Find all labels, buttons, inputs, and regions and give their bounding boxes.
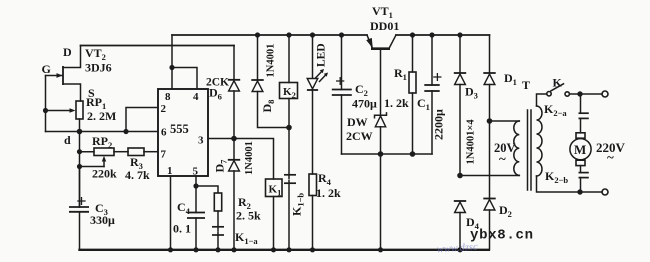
diode D3 (454, 35, 466, 176)
zener diode DW (2CW) (375, 113, 387, 154)
svg-text:2: 2 (161, 103, 167, 115)
node bottom right junction (577, 189, 582, 194)
svg-text:DW: DW (347, 115, 368, 129)
node C4 ground (193, 247, 198, 252)
svg-text:1N4001×4: 1N4001×4 (466, 119, 477, 165)
node C1 rail (429, 32, 434, 37)
svg-text:M: M (574, 142, 586, 157)
node switch junction (577, 91, 582, 96)
relay contact K1-b (284, 128, 296, 250)
wire primary bottom lead (537, 176, 603, 192)
relay coil K2 (280, 35, 298, 128)
wire gate column (45, 76, 47, 132)
svg-text:2. 2M: 2. 2M (87, 109, 116, 123)
svg-text:G: G (42, 62, 51, 76)
node C2 rail (339, 32, 344, 37)
node RP2 left junction (77, 149, 82, 154)
transistor VT1 (DD01) (366, 35, 396, 115)
transformer core (528, 110, 532, 190)
svg-text:~: ~ (499, 151, 506, 166)
node D7 ground (231, 247, 236, 252)
wire regulator common node row (342, 153, 433, 155)
node pin1 ground (168, 247, 173, 252)
relay coil K1 (266, 179, 283, 198)
svg-text:4. 7k: 4. 7k (125, 168, 150, 182)
svg-text:1: 1 (167, 165, 173, 177)
resistor R3 (114, 148, 158, 156)
node K2 bottom junction (286, 125, 292, 131)
node K1 ground (271, 247, 276, 252)
svg-text:220k: 220k (92, 167, 117, 181)
relay contact K2-b (579, 166, 589, 192)
node R1 junction (410, 151, 416, 157)
wire R4 to ground (312, 196, 314, 250)
svg-text:DD01: DD01 (370, 19, 399, 33)
svg-text:470μ: 470μ (352, 97, 377, 111)
wire K1 to ground (273, 197, 275, 250)
transformer T secondary winding (514, 121, 520, 175)
wire rail B from VT2 drain (81, 45, 235, 47)
terminal bottom (602, 189, 608, 195)
svg-text:330μ: 330μ (90, 213, 115, 227)
svg-text:7: 7 (161, 149, 167, 161)
svg-text:3DJ6: 3DJ6 (85, 61, 112, 75)
svg-text:1N4001: 1N4001 (266, 44, 277, 78)
wire pin2 tie (126, 108, 158, 132)
wire LED to R4 (312, 90, 314, 174)
node DW junction (378, 151, 384, 157)
svg-text:D: D (63, 45, 72, 59)
node pin5 junction (193, 183, 198, 188)
capacitor C1 (424, 35, 441, 154)
wire AC2 to transformer (490, 120, 520, 122)
diode D4 (454, 201, 466, 250)
node junction pin8/pin4 (169, 65, 174, 70)
wire d node row to 555 pin6 (46, 131, 159, 133)
terminal top (602, 91, 608, 97)
node pin3 diode junction (231, 136, 237, 142)
svg-text:3: 3 (198, 135, 204, 147)
node K1-b ground (286, 247, 291, 252)
svg-text:1. 2k: 1. 2k (384, 96, 409, 110)
node AC1 junction (457, 173, 463, 179)
svg-text:LED: LED (316, 43, 328, 67)
wire pin5 to R2 (196, 186, 218, 193)
wire pin5 column (195, 176, 197, 213)
wire node row to ground (380, 154, 382, 250)
diode D6 (2CK) (228, 46, 240, 160)
wire 555 Vcc riser (171, 35, 173, 89)
svg-text:6: 6 (161, 127, 167, 139)
capacitor C3 (69, 167, 89, 250)
svg-text:K: K (553, 76, 563, 90)
node AC2 junction (487, 118, 493, 124)
resistor RP1 (76, 101, 83, 119)
node R1 rail (410, 32, 415, 37)
capacitor C2 (332, 35, 352, 154)
wire top rail A left segment (172, 34, 367, 36)
wire RP1 wiper arrow (46, 108, 76, 113)
wire top rail A right segment (396, 34, 490, 36)
wire RP1 bottom to d (79, 119, 81, 132)
node D4 ground (457, 247, 462, 252)
potentiometer RP2 (80, 148, 115, 167)
node K2 rail (286, 32, 291, 37)
diode D8 (1N4001) (251, 35, 289, 128)
motor M (570, 133, 591, 166)
svg-text:d: d (64, 133, 71, 147)
node D3 rail (457, 32, 462, 37)
switch K (547, 84, 602, 96)
resistor R2 (214, 193, 221, 211)
wire pin3 output (208, 139, 274, 180)
wire pin1 to ground (170, 176, 172, 250)
svg-text:1N4001: 1N4001 (244, 141, 255, 175)
transistor VT2 (3DJ6 JFET) (46, 46, 81, 102)
node row ground (378, 247, 383, 252)
diode D7 (1N4001) (228, 160, 240, 250)
wire d column down (79, 132, 81, 208)
svg-text:T: T (522, 78, 530, 92)
wire primary top lead (537, 94, 547, 106)
node K1-a ground (215, 247, 220, 252)
svg-text:2CW: 2CW (346, 129, 373, 143)
diode D1 (483, 35, 495, 121)
resistor R4 (309, 174, 317, 196)
node d junction (77, 129, 83, 135)
svg-text:2. 5k: 2. 5k (236, 209, 261, 223)
transformer T primary winding (537, 106, 543, 176)
svg-text:ybx8.cn: ybx8.cn (470, 228, 534, 244)
svg-text:8: 8 (165, 91, 171, 103)
node gate junction (43, 108, 48, 113)
wire pin4 branch (172, 68, 197, 90)
svg-text:1. 2k: 1. 2k (316, 186, 341, 200)
svg-text:555: 555 (170, 122, 189, 136)
svg-text:~: ~ (607, 150, 614, 165)
capacitor C4 (187, 213, 205, 250)
LED indicator (307, 35, 328, 90)
svg-text:2200μ: 2200μ (432, 109, 446, 140)
diode D2 (483, 121, 495, 250)
svg-text:4: 4 (193, 91, 199, 103)
wire bottom ground rail (78, 249, 490, 251)
node LED rail (310, 32, 315, 37)
node pin2/pin6 junction (123, 129, 128, 134)
svg-text:0. 1: 0. 1 (173, 222, 191, 236)
relay contact K1-a (212, 211, 224, 250)
resistor R1 (409, 35, 416, 154)
node R4 ground (310, 247, 315, 252)
wire AC1 to transformer (460, 175, 519, 177)
node D8 rail (255, 32, 260, 37)
relay contact K2-a (579, 94, 589, 133)
node RP2 wiper junction (77, 164, 82, 169)
IC U1 555 timer (158, 89, 208, 178)
